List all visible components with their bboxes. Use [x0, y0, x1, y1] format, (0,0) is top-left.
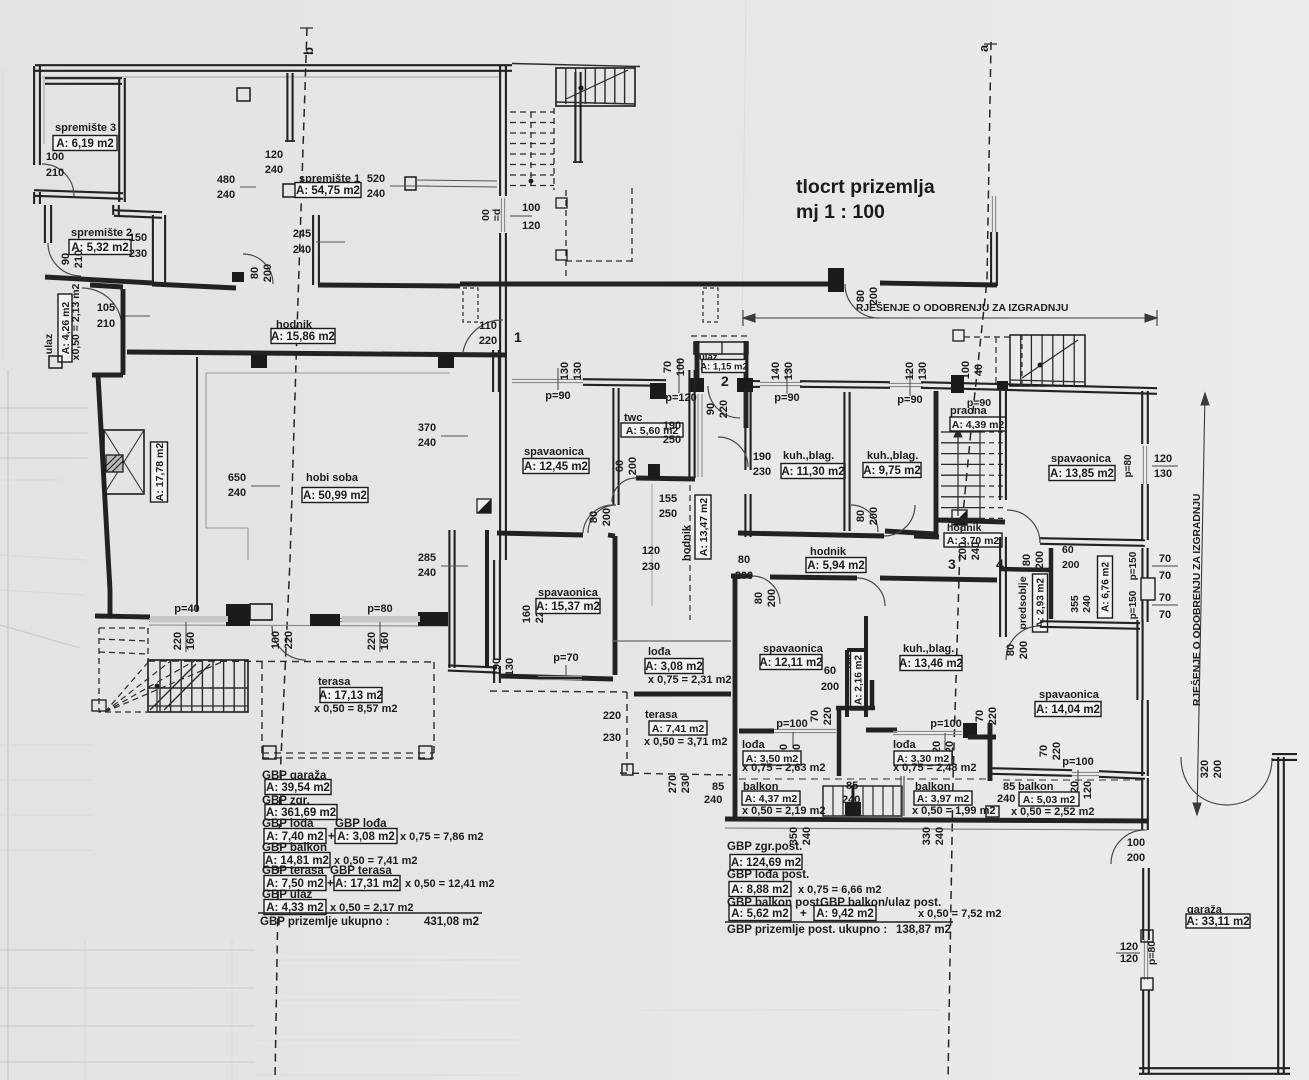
svg-text:80: 80: [738, 554, 750, 566]
svg-text:240: 240: [418, 437, 436, 449]
svg-text:240: 240: [217, 189, 235, 201]
svg-text:200: 200: [766, 589, 778, 607]
svg-text:spavaonica: spavaonica: [524, 446, 585, 458]
svg-text:+: +: [327, 878, 334, 890]
svg-text:spavaonica: spavaonica: [763, 643, 824, 655]
svg-text:200: 200: [1212, 760, 1224, 778]
svg-text:A: 39,54 m2: A: 39,54 m2: [266, 782, 330, 794]
svg-text:105: 105: [97, 302, 115, 314]
svg-text:355: 355: [1069, 595, 1081, 613]
svg-text:RJEŠENJE O ODOBRENJU ZA IZGRAD: RJEŠENJE O ODOBRENJU ZA IZGRADNJU: [856, 301, 1068, 314]
svg-text:120: 120: [522, 220, 540, 232]
svg-text:A: 15,37 m2: A: 15,37 m2: [536, 601, 600, 613]
svg-text:p=150: p=150: [1128, 590, 1139, 619]
svg-text:90: 90: [60, 253, 72, 265]
svg-text:twc: twc: [624, 412, 642, 424]
svg-text:240: 240: [970, 542, 982, 560]
svg-text:240: 240: [228, 487, 246, 499]
svg-text:tlocrt prizemlja: tlocrt prizemlja: [796, 176, 935, 198]
svg-text:220: 220: [1051, 742, 1063, 760]
svg-text:A: 124,69 m2: A: 124,69 m2: [731, 857, 801, 869]
svg-text:A: 5,94 m2: A: 5,94 m2: [807, 560, 865, 572]
svg-text:spavaonica: spavaonica: [1039, 689, 1100, 701]
svg-text:A: 2,16 m2: A: 2,16 m2: [854, 655, 865, 705]
svg-text:200: 200: [821, 681, 839, 693]
svg-text:100: 100: [960, 361, 972, 379]
svg-text:A: 8,88 m2: A: 8,88 m2: [731, 884, 789, 896]
svg-text:spavaonica: spavaonica: [1051, 453, 1112, 465]
svg-text:A: 6,76 m2: A: 6,76 m2: [1101, 562, 1112, 612]
svg-text:+: +: [800, 908, 807, 920]
svg-text:A: 11,30 m2: A: 11,30 m2: [781, 466, 844, 478]
svg-text:130: 130: [1154, 468, 1172, 480]
svg-text:=d: =d: [491, 209, 503, 222]
svg-text:100: 100: [46, 151, 64, 163]
svg-text:p=150: p=150: [1128, 551, 1139, 580]
svg-text:GBP prizemlje ukupno :: GBP prizemlje ukupno :: [260, 916, 390, 928]
svg-text:p=90: p=90: [545, 390, 570, 402]
svg-text:220: 220: [366, 632, 378, 650]
svg-text:120: 120: [265, 149, 283, 161]
svg-text:650: 650: [228, 472, 246, 484]
svg-text:A: 5,03 m2: A: 5,03 m2: [1023, 794, 1076, 806]
svg-text:200: 200: [868, 287, 880, 305]
svg-text:250: 250: [663, 434, 681, 446]
svg-text:x 0,50 = 2,17 m2: x 0,50 = 2,17 m2: [330, 902, 413, 914]
svg-text:A: 54,75 m2: A: 54,75 m2: [296, 185, 360, 197]
svg-text:terasa: terasa: [318, 676, 351, 688]
svg-text:190: 190: [753, 451, 771, 463]
svg-text:245: 245: [293, 228, 311, 240]
svg-text:+: +: [328, 831, 335, 843]
svg-text:120: 120: [1120, 941, 1138, 953]
svg-text:hodnik: hodnik: [947, 522, 982, 534]
svg-text:130: 130: [572, 362, 584, 380]
svg-text:100: 100: [1127, 837, 1145, 849]
svg-text:b: b: [301, 47, 316, 55]
svg-text:3: 3: [948, 556, 956, 572]
svg-text:A: 3,97 m2: A: 3,97 m2: [917, 793, 970, 805]
svg-text:A: 9,42 m2: A: 9,42 m2: [816, 908, 874, 920]
svg-text:x 0,50 = 3,71 m2: x 0,50 = 3,71 m2: [644, 736, 727, 748]
svg-text:100: 100: [522, 202, 540, 214]
svg-text:A: 50,99 m2: A: 50,99 m2: [303, 490, 367, 502]
svg-text:A: 5,62 m2: A: 5,62 m2: [731, 908, 789, 920]
svg-text:kuh.,blag.: kuh.,blag.: [867, 450, 918, 462]
svg-text:150: 150: [129, 232, 147, 244]
svg-text:A: 3,08 m2: A: 3,08 m2: [337, 831, 395, 843]
svg-text:70: 70: [1159, 570, 1171, 582]
svg-text:lođa: lođa: [893, 739, 916, 751]
svg-text:A: 15,86 m2: A: 15,86 m2: [271, 331, 335, 343]
svg-text:A: 4,39 m2: A: 4,39 m2: [952, 419, 1005, 431]
svg-text:x0,50 = 2,13 m2: x0,50 = 2,13 m2: [70, 283, 82, 360]
svg-text:240: 240: [293, 244, 311, 256]
svg-text:200: 200: [627, 457, 639, 475]
svg-text:p=70: p=70: [553, 652, 578, 664]
svg-text:mj 1 : 100: mj 1 : 100: [796, 201, 885, 223]
svg-text:p=100: p=100: [776, 718, 808, 730]
svg-text:x 0,50 = 2,19 m2: x 0,50 = 2,19 m2: [742, 805, 825, 817]
svg-text:spremište 2: spremište 2: [71, 227, 132, 239]
svg-text:p=100: p=100: [1062, 756, 1094, 768]
svg-text:200: 200: [868, 507, 880, 525]
svg-text:70: 70: [1038, 745, 1050, 757]
svg-text:70: 70: [974, 710, 986, 722]
svg-text:80: 80: [588, 511, 600, 523]
svg-text:A: 12,11 m2: A: 12,11 m2: [759, 657, 822, 669]
svg-text:A: 9,75 m2: A: 9,75 m2: [863, 465, 921, 477]
svg-text:320: 320: [1199, 760, 1211, 778]
svg-text:200: 200: [262, 264, 274, 282]
svg-text:70: 70: [1159, 609, 1171, 621]
svg-text:370: 370: [418, 422, 436, 434]
svg-text:130: 130: [783, 362, 795, 380]
svg-text:60: 60: [1062, 544, 1074, 556]
svg-text:70: 70: [1159, 553, 1171, 565]
svg-text:x 0,75 = 2,31 m2: x 0,75 = 2,31 m2: [648, 674, 731, 686]
svg-text:100: 100: [675, 358, 687, 376]
svg-text:70: 70: [809, 710, 821, 722]
svg-text:predsoblje: predsoblje: [1017, 576, 1029, 629]
svg-text:90: 90: [705, 403, 717, 415]
svg-text:85: 85: [1003, 781, 1015, 793]
svg-text:120: 120: [1120, 953, 1138, 965]
svg-text:60: 60: [824, 665, 836, 677]
svg-text:balkon: balkon: [1018, 781, 1054, 793]
svg-text:80: 80: [1005, 644, 1017, 656]
svg-text:240: 240: [704, 794, 722, 806]
svg-text:230: 230: [753, 466, 771, 478]
svg-text:x 0,50 = 1,99 m2: x 0,50 = 1,99 m2: [912, 805, 995, 817]
svg-text:220: 220: [987, 707, 999, 725]
svg-text:A: 17,31 m2: A: 17,31 m2: [335, 878, 399, 890]
svg-text:p=120: p=120: [665, 392, 697, 404]
svg-text:80: 80: [855, 510, 867, 522]
svg-text:terasa: terasa: [645, 709, 678, 721]
svg-text:220: 220: [172, 632, 184, 650]
svg-text:2: 2: [721, 373, 729, 389]
svg-text:A: 12,45 m2: A: 12,45 m2: [524, 461, 588, 473]
svg-text:80: 80: [855, 290, 867, 302]
svg-text:200: 200: [957, 542, 969, 560]
svg-text:70: 70: [1159, 592, 1171, 604]
svg-text:140: 140: [770, 362, 782, 380]
svg-text:hobi soba: hobi soba: [306, 472, 359, 484]
svg-text:A: 7,41 m2: A: 7,41 m2: [652, 723, 705, 735]
svg-text:A: 4,37 m2: A: 4,37 m2: [745, 793, 798, 805]
svg-text:220: 220: [283, 631, 295, 649]
svg-text:200: 200: [1062, 559, 1080, 571]
svg-text:A: 6,19 m2: A: 6,19 m2: [56, 138, 114, 150]
svg-text:A: 13,46 m2: A: 13,46 m2: [899, 658, 963, 670]
svg-text:A: 13,85 m2: A: 13,85 m2: [1050, 468, 1114, 480]
svg-text:A: 13,47 m2: A: 13,47 m2: [698, 498, 710, 557]
svg-text:230: 230: [642, 561, 660, 573]
svg-text:lođa: lođa: [742, 739, 765, 751]
svg-text:p=90: p=90: [967, 397, 991, 409]
svg-text:220: 220: [718, 400, 730, 418]
svg-text:hodnik: hodnik: [681, 524, 693, 561]
svg-text:230: 230: [603, 732, 621, 744]
svg-text:GBP zgr.post.: GBP zgr.post.: [727, 841, 802, 853]
svg-text:A: 33,11 m2: A: 33,11 m2: [1186, 916, 1249, 928]
svg-text:a: a: [976, 44, 991, 52]
svg-text:240: 240: [934, 827, 946, 845]
svg-text:220: 220: [822, 707, 834, 725]
svg-text:431,08 m2: 431,08 m2: [424, 916, 479, 928]
svg-text:200: 200: [601, 508, 613, 526]
svg-text:80: 80: [249, 267, 261, 279]
svg-text:85: 85: [712, 781, 724, 793]
svg-text:155: 155: [659, 493, 677, 505]
svg-text:x 0,75 = 2,63 m2: x 0,75 = 2,63 m2: [742, 762, 825, 774]
svg-text:x 0,50 = 8,57 m2: x 0,50 = 8,57 m2: [314, 703, 397, 715]
svg-text:p=80: p=80: [1123, 454, 1134, 478]
svg-text:120: 120: [904, 362, 916, 380]
svg-text:240: 240: [265, 164, 283, 176]
svg-text:130: 130: [917, 362, 929, 380]
svg-text:120: 120: [1082, 781, 1094, 799]
svg-text:220: 220: [603, 710, 621, 722]
svg-text:240: 240: [1081, 595, 1093, 613]
svg-text:160: 160: [185, 632, 197, 650]
svg-text:330: 330: [921, 827, 933, 845]
svg-text:x 0,75 = 2,48 m2: x 0,75 = 2,48 m2: [893, 762, 976, 774]
svg-text:230: 230: [129, 248, 147, 260]
svg-text:x 0,50 = 12,41 m2: x 0,50 = 12,41 m2: [405, 878, 495, 890]
svg-text:GBP lođa post.: GBP lođa post.: [727, 869, 809, 881]
svg-text:A: 1,15 m2: A: 1,15 m2: [700, 361, 748, 372]
svg-text:130: 130: [559, 362, 571, 380]
svg-text:80: 80: [753, 592, 765, 604]
svg-text:120: 120: [1154, 453, 1172, 465]
svg-text:270: 270: [667, 775, 679, 793]
svg-text:190: 190: [663, 420, 681, 432]
svg-text:220: 220: [479, 335, 497, 347]
svg-text:p=100: p=100: [930, 718, 962, 730]
svg-text:138,87 m2: 138,87 m2: [896, 924, 951, 936]
svg-text:40: 40: [973, 364, 985, 376]
svg-text:210: 210: [73, 250, 85, 268]
svg-text:240: 240: [997, 793, 1015, 805]
svg-text:p=80: p=80: [367, 603, 392, 615]
svg-text:480: 480: [217, 174, 235, 186]
svg-text:190: 190: [491, 658, 503, 676]
svg-text:210: 210: [97, 318, 115, 330]
svg-text:A: 17,13 m2: A: 17,13 m2: [319, 690, 383, 702]
svg-text:200: 200: [1018, 641, 1030, 659]
svg-text:p=40: p=40: [174, 603, 199, 615]
svg-text:spavaonica: spavaonica: [538, 587, 599, 599]
svg-text:200: 200: [1127, 852, 1145, 864]
svg-text:A: 3,08 m2: A: 3,08 m2: [645, 661, 703, 673]
svg-text:80: 80: [1021, 554, 1033, 566]
svg-text:ulaz: ulaz: [43, 334, 55, 354]
svg-text:160: 160: [379, 632, 391, 650]
svg-text:60: 60: [614, 460, 626, 472]
svg-text:285: 285: [418, 552, 436, 564]
svg-text:70: 70: [662, 361, 674, 373]
svg-text:x 0,75 = 6,66 m2: x 0,75 = 6,66 m2: [798, 884, 881, 896]
svg-text:spremište 3: spremište 3: [55, 122, 116, 134]
svg-text:120: 120: [642, 545, 660, 557]
svg-text:230: 230: [680, 775, 692, 793]
svg-text:A: 17,78 m2: A: 17,78 m2: [154, 443, 166, 502]
svg-text:x 0,50 = 2,52 m2: x 0,50 = 2,52 m2: [1011, 806, 1094, 818]
svg-text:250: 250: [659, 508, 677, 520]
svg-text:kuh.,blag.: kuh.,blag.: [783, 450, 834, 462]
svg-text:130: 130: [504, 658, 516, 676]
svg-text:A: 14,04 m2: A: 14,04 m2: [1036, 704, 1100, 716]
svg-text:160: 160: [521, 605, 533, 623]
svg-text:200: 200: [1034, 551, 1046, 569]
svg-text:p=80: p=80: [1146, 941, 1158, 965]
svg-text:520: 520: [367, 173, 385, 185]
svg-text:240: 240: [367, 188, 385, 200]
svg-text:210: 210: [46, 167, 64, 179]
svg-text:kuh.,blag.: kuh.,blag.: [903, 643, 954, 655]
svg-text:x 0,75 = 7,86 m2: x 0,75 = 7,86 m2: [400, 831, 483, 843]
svg-text:GBP prizemlje post. ukupno :: GBP prizemlje post. ukupno :: [727, 924, 887, 936]
svg-text:100: 100: [270, 631, 282, 649]
svg-text:110: 110: [479, 320, 497, 332]
svg-text:240: 240: [418, 567, 436, 579]
svg-text:240: 240: [801, 827, 813, 845]
svg-text:hodnik: hodnik: [810, 546, 847, 558]
svg-text:x 0,50 = 7,52 m2: x 0,50 = 7,52 m2: [918, 908, 1001, 920]
svg-text:lođa: lođa: [648, 646, 671, 658]
svg-text:1: 1: [514, 329, 522, 345]
